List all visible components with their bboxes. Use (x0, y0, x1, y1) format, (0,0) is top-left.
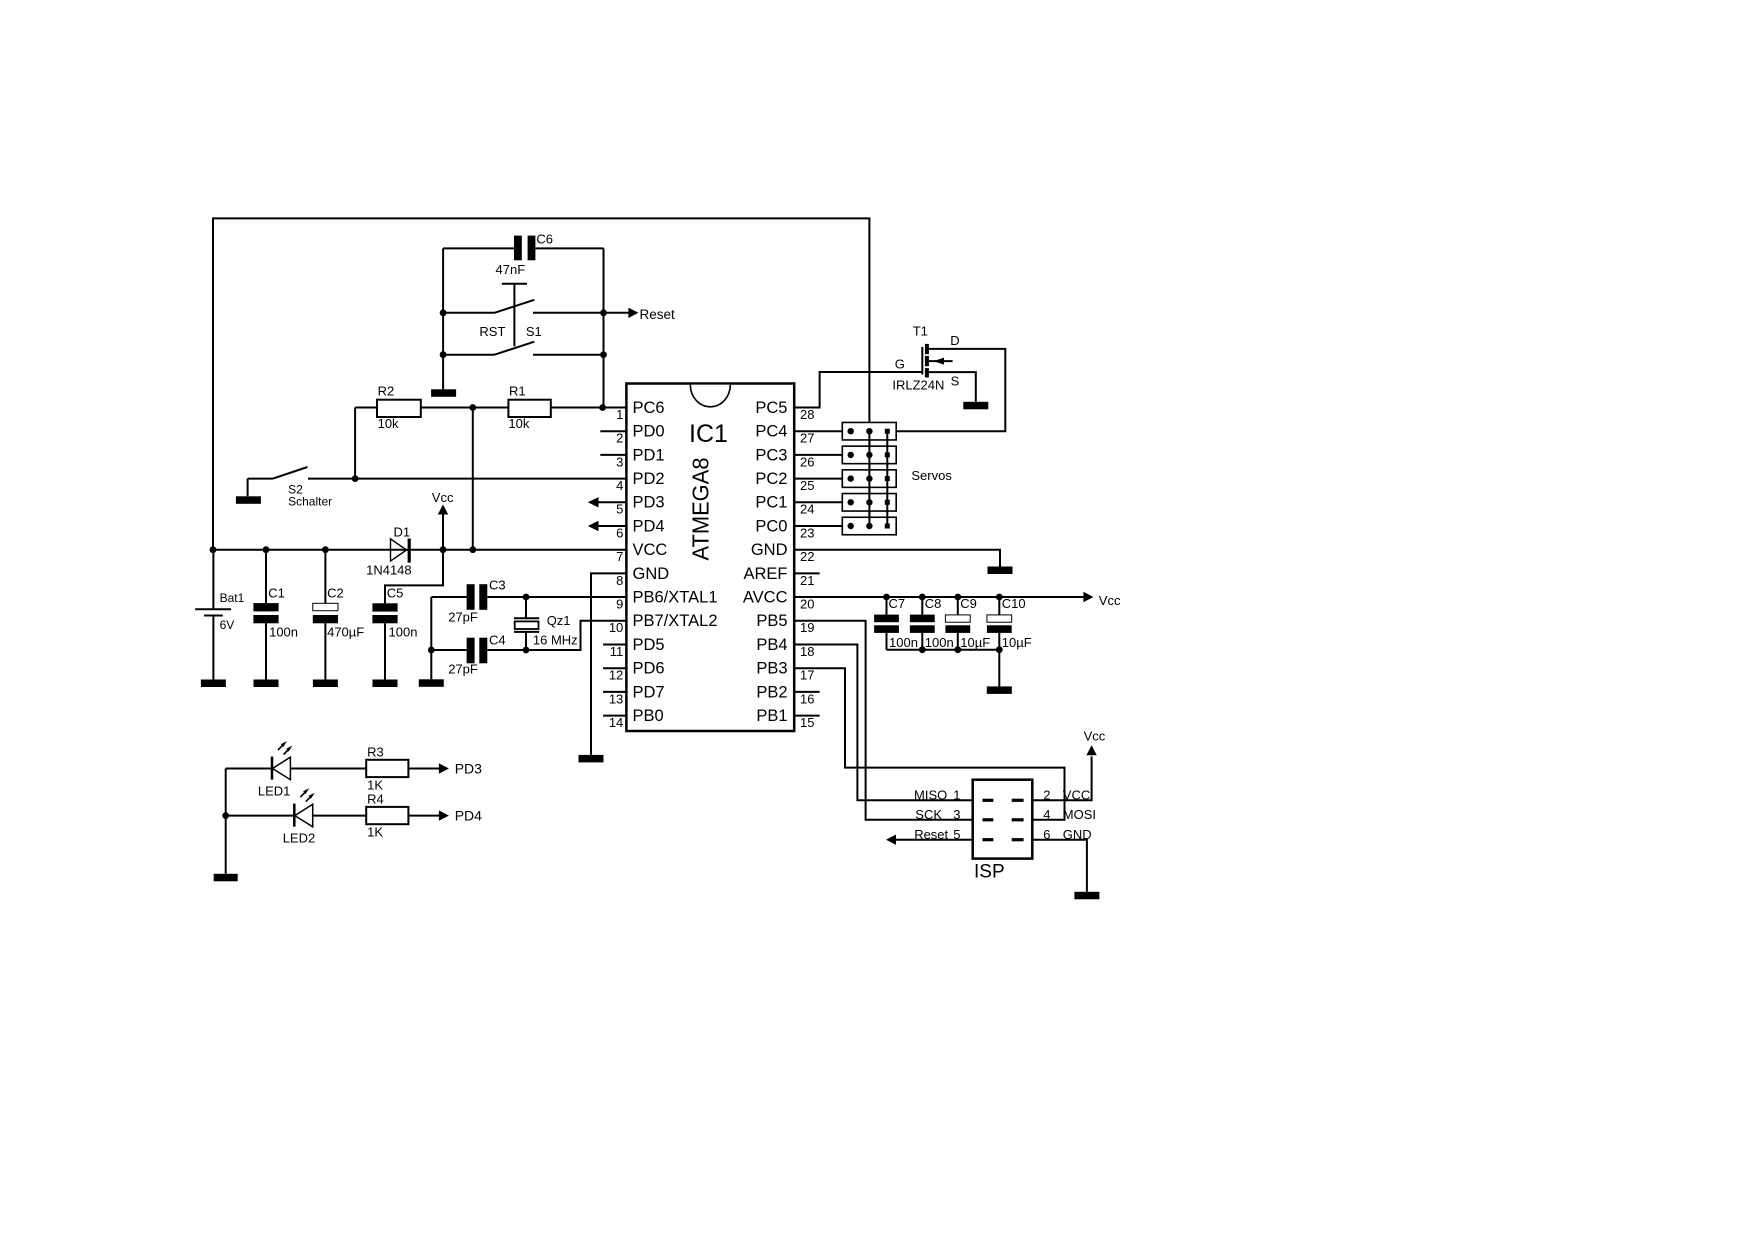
svg-text:16 MHz: 16 MHz (533, 633, 578, 648)
svg-text:14: 14 (609, 715, 623, 730)
IC1 pin 10 (PB7/XTAL2) (609, 612, 718, 635)
junction battery/rail (210, 546, 217, 553)
IC1 pin 20 (AVCC) (743, 589, 815, 612)
svg-text:PD3: PD3 (455, 760, 482, 776)
ISP pin 1 label MISO (914, 788, 961, 803)
svg-text:PC6: PC6 (633, 399, 665, 417)
wire LED1 anode to R3 (290, 768, 366, 770)
svg-text:PB5: PB5 (756, 612, 787, 630)
IC1 pin 3 (PD1) (600, 446, 664, 469)
wire servo middle column (battery +) (868, 431, 870, 526)
svg-text:PC5: PC5 (755, 399, 787, 417)
ic IC1 ATMEGA8 body (626, 384, 794, 732)
IC1 pin 14 (PB0) (603, 707, 664, 730)
svg-text:PD4: PD4 (455, 807, 482, 823)
svg-text:13: 13 (609, 691, 623, 706)
ground S1 (431, 389, 456, 397)
svg-text:24: 24 (800, 502, 814, 517)
crystal Qz1 16 MHz (514, 597, 578, 650)
svg-text:PB1: PB1 (756, 707, 787, 725)
svg-text:25: 25 (800, 478, 814, 493)
svg-text:17: 17 (800, 668, 814, 683)
junction S1 top-left (440, 309, 447, 316)
resistor R2 10k (355, 383, 473, 431)
svg-text:10: 10 (609, 620, 623, 635)
svg-text:100n: 100n (925, 635, 954, 650)
svg-text:PC1: PC1 (755, 494, 787, 512)
svg-text:5: 5 (616, 502, 623, 517)
IC1 pin 25 (PC2) (755, 470, 814, 493)
svg-text:15: 15 (800, 715, 814, 730)
junction R1-R2/rail (469, 546, 476, 553)
svg-text:PC4: PC4 (755, 423, 787, 441)
svg-text:C8: C8 (925, 596, 942, 611)
junction Qz1 top (523, 594, 530, 601)
junction Qz1 bottom (523, 647, 530, 654)
ISP pin 3 label SCK (915, 807, 960, 822)
capacitor C6 47nF (443, 232, 603, 277)
wire crystal left leg to ground (430, 597, 432, 679)
wire PB5 pin19 to ISP SCK (794, 621, 973, 820)
svg-text:RST: RST (479, 324, 505, 339)
junction C8/AVCC (919, 594, 926, 601)
junction C8/bus (919, 646, 926, 653)
IC1 pin 11 (PD5) (603, 636, 665, 659)
wire C7-C10 bottom bus (887, 649, 1000, 651)
wire IC pin 22 GND to ground (794, 550, 1000, 567)
svg-text:PB2: PB2 (756, 683, 787, 701)
svg-text:MOSI: MOSI (1063, 807, 1096, 822)
svg-text:IRLZ24N: IRLZ24N (892, 378, 944, 393)
connector Servos row 3 (pin 25) (794, 470, 896, 488)
junction C10/AVCC (996, 594, 1003, 601)
svg-text:PC2: PC2 (755, 470, 787, 488)
junction R2/PD2 (352, 475, 359, 482)
svg-text:12: 12 (609, 668, 623, 683)
wire C6 right vertical to reset node (603, 248, 605, 407)
capacitor C2 470uF electrolytic (313, 550, 364, 680)
IC1 pin 23 (PC0) (755, 517, 814, 540)
svg-text:27: 27 (800, 431, 814, 446)
svg-text:IC1: IC1 (689, 420, 728, 448)
capacitor C3 27pF (448, 577, 505, 624)
battery Bat1 6V (195, 550, 244, 680)
svg-text:7: 7 (616, 549, 623, 564)
ISP pin 2 label VCC (1043, 788, 1090, 803)
svg-text:3: 3 (953, 807, 960, 822)
IC1 pin 4 (PD2) (616, 470, 665, 493)
junction S1 top-right (600, 309, 607, 316)
IC1 pin 18 (PB4) (756, 636, 814, 659)
svg-text:21: 21 (800, 573, 814, 588)
ground C10 bus (987, 686, 1012, 694)
svg-text:Reset: Reset (640, 307, 676, 322)
svg-text:28: 28 (800, 407, 814, 422)
ground battery (201, 680, 226, 688)
svg-text:1: 1 (953, 788, 960, 803)
svg-text:R2: R2 (378, 383, 395, 398)
svg-text:Servos: Servos (911, 468, 952, 483)
svg-text:C2: C2 (327, 586, 344, 601)
ground crystal (419, 679, 444, 687)
junction S1 bottom-right (600, 351, 607, 358)
switch S2 Schalter (248, 467, 333, 509)
IC1 pin 7 (VCC) (616, 541, 667, 564)
svg-text:10k: 10k (378, 416, 399, 431)
wire R2-R1 node to Vcc rail (472, 408, 474, 550)
wire C6/S1 left vertical to ground (442, 248, 444, 389)
IC1 pin 13 (PD7) (603, 683, 665, 706)
ground T1 source (963, 402, 988, 410)
svg-text:6: 6 (616, 525, 623, 540)
svg-text:R4: R4 (367, 792, 384, 807)
svg-text:PC0: PC0 (755, 517, 787, 535)
svg-text:22: 22 (800, 549, 814, 564)
svg-text:GND: GND (633, 565, 670, 583)
svg-text:PD5: PD5 (633, 636, 665, 654)
junction S1 bottom-left (440, 351, 447, 358)
IC1 pin 19 (PB5) (756, 612, 814, 635)
net label arrow PD3 (408, 760, 482, 776)
net label arrow PD4 (408, 807, 482, 823)
led LED2 (226, 788, 316, 845)
junction LED2 row (222, 812, 229, 819)
ground C2 (313, 680, 338, 688)
junction crystal left/C4 (428, 647, 435, 654)
svg-text:47nF: 47nF (496, 262, 526, 277)
wire bus down to ground (998, 650, 1000, 687)
svg-text:AREF: AREF (743, 565, 787, 583)
label Servos (911, 468, 952, 483)
svg-text:PD4: PD4 (633, 517, 665, 535)
svg-text:PB0: PB0 (633, 707, 664, 725)
connector Servos row 1 (pin 27) (794, 422, 896, 440)
svg-text:C7: C7 (889, 596, 906, 611)
svg-text:Qz1: Qz1 (547, 613, 571, 628)
svg-text:Vcc: Vcc (1084, 729, 1106, 744)
connector Servos row 5 (pin 23) (794, 517, 896, 535)
connector ISP body (973, 780, 1033, 883)
resistor R1 10k (473, 383, 627, 431)
svg-text:10k: 10k (508, 416, 529, 431)
wire LED cathode rail (225, 769, 227, 874)
svg-text:GND: GND (751, 541, 788, 559)
svg-text:100n: 100n (269, 625, 298, 640)
svg-text:SCK: SCK (915, 807, 942, 822)
IC1 pin 5 (PD3) (588, 494, 665, 517)
capacitor C8 100n (910, 596, 954, 650)
junction C10/bus (996, 646, 1003, 653)
IC1 pin 24 (PC1) (755, 494, 814, 517)
svg-text:PD2: PD2 (633, 470, 665, 488)
ISP pin 5 label Reset (914, 827, 960, 842)
connector Servos row 2 (pin 26) (794, 446, 896, 464)
transistor T1 IRLZ24N (892, 323, 959, 392)
junction R1-R2 node (469, 404, 476, 411)
svg-text:T1: T1 (913, 323, 928, 338)
svg-text:19: 19 (800, 620, 814, 635)
svg-text:PD6: PD6 (633, 660, 665, 678)
capacitor C9 10uF (945, 596, 990, 650)
junction C7/AVCC (883, 594, 890, 601)
svg-text:S1: S1 (526, 324, 542, 339)
ground S2 (236, 496, 261, 504)
ground C5 (373, 680, 398, 688)
svg-text:1K: 1K (367, 825, 383, 840)
wire ISP VCC to Vcc symbol (1032, 729, 1105, 801)
ground ISP (1074, 892, 1099, 900)
resistor R3 1K (366, 745, 408, 793)
svg-text:ATMEGA8: ATMEGA8 (688, 458, 714, 561)
svg-text:9: 9 (616, 597, 623, 612)
wire AVCC net with Vcc arrow (794, 592, 1121, 608)
svg-text:4: 4 (616, 478, 623, 493)
wire PD2 net from switch S2 to IC pin 4 (308, 478, 626, 480)
ground pin8 (579, 755, 604, 763)
wire Vcc rail from battery to IC pin 7 (VCC) (213, 549, 626, 551)
IC1 pin 8 (GND) (616, 565, 669, 588)
svg-text:LED2: LED2 (283, 830, 316, 845)
wire PB4 pin18 to ISP MISO (794, 645, 973, 801)
svg-text:1K: 1K (367, 778, 383, 793)
wire battery plus up and top rail to servo column (213, 218, 869, 549)
svg-text:26: 26 (800, 454, 814, 469)
svg-text:C1: C1 (268, 586, 285, 601)
svg-text:Bat1: Bat1 (220, 591, 245, 605)
svg-text:PD1: PD1 (633, 446, 665, 464)
power symbol Vcc (at rail) (432, 490, 454, 550)
svg-text:8: 8 (616, 573, 623, 588)
IC1 pin 15 (PB1) (756, 707, 819, 730)
IC1 pin 1 (PC6) (616, 399, 665, 422)
svg-text:C10: C10 (1002, 596, 1026, 611)
svg-text:16: 16 (800, 691, 814, 706)
svg-text:470µF: 470µF (327, 625, 364, 640)
ISP pin 6 label GND (1043, 827, 1091, 842)
svg-text:Vcc: Vcc (1099, 593, 1121, 608)
capacitor C5 100n (372, 550, 443, 680)
wire IC pin 8 GND to ground (591, 573, 626, 755)
junction C9/AVCC (954, 594, 961, 601)
net label arrow Reset (604, 307, 676, 322)
svg-text:Vcc: Vcc (432, 490, 454, 505)
net label arrow Reset at ISP (886, 835, 973, 845)
IC1 pin 27 (PC4) (755, 423, 814, 446)
IC1 pin 22 (GND) (751, 541, 815, 564)
wire T1 drain to servo power column (887, 349, 1005, 431)
svg-text:D1: D1 (394, 525, 411, 540)
svg-text:PD0: PD0 (633, 423, 665, 441)
svg-text:C6: C6 (536, 232, 553, 247)
wire servo right column (switched gnd) (886, 431, 888, 526)
svg-text:C9: C9 (960, 596, 977, 611)
IC1 pin 28 (PC5) (755, 399, 814, 422)
svg-text:G: G (895, 357, 905, 372)
junction C9/bus (954, 646, 961, 653)
wire PC5 pin28 to T1 gate (794, 372, 922, 408)
connector Servos row 4 (pin 24) (794, 494, 896, 512)
svg-text:1: 1 (616, 407, 623, 422)
IC1 pin 26 (PC3) (755, 446, 814, 469)
svg-text:18: 18 (800, 644, 814, 659)
ground LEDs (214, 874, 238, 882)
svg-text:D: D (950, 333, 959, 348)
IC1 pin 2 (PD0) (600, 423, 664, 446)
wire PB3 pin17 to ISP MOSI (794, 668, 1064, 820)
wire LED2 anode to R4 (313, 815, 367, 817)
svg-text:27pF: 27pF (448, 609, 478, 624)
svg-text:2: 2 (616, 431, 623, 446)
svg-text:MISO: MISO (914, 788, 947, 803)
svg-text:6V: 6V (220, 618, 235, 632)
IC1 pin 17 (PB3) (756, 660, 814, 683)
svg-text:C3: C3 (489, 577, 506, 592)
svg-text:VCC: VCC (633, 541, 668, 559)
svg-text:100n: 100n (889, 635, 918, 650)
IC1 pin 9 (PB6/XTAL1) (616, 589, 717, 612)
junction C1/rail (263, 546, 270, 553)
pushbutton S1 RST (443, 284, 603, 355)
IC1 pin 6 (PD4) (588, 517, 665, 540)
resistor R4 1K (366, 792, 408, 840)
svg-text:LED1: LED1 (258, 783, 291, 798)
svg-text:R1: R1 (509, 383, 526, 398)
capacitor C7 100n (874, 596, 918, 650)
svg-text:S: S (951, 374, 960, 389)
led LED1 (226, 741, 293, 798)
wire R2 left drop to PD2 net (354, 408, 356, 479)
svg-text:R3: R3 (367, 745, 384, 760)
svg-text:20: 20 (800, 597, 814, 612)
svg-text:23: 23 (800, 525, 814, 540)
svg-text:PB3: PB3 (756, 660, 787, 678)
junction C2/rail (322, 546, 329, 553)
svg-text:Schalter: Schalter (288, 495, 332, 509)
svg-text:27pF: 27pF (448, 661, 478, 676)
capacitor C1 100n (253, 550, 298, 680)
svg-text:C5: C5 (387, 586, 404, 601)
svg-text:PC3: PC3 (755, 446, 787, 464)
junction reset-node/pin1 (599, 404, 606, 411)
svg-text:PD7: PD7 (633, 683, 665, 701)
svg-text:10µF: 10µF (1002, 635, 1032, 650)
junction Vcc-arrow/C5/rail (440, 546, 447, 553)
IC1 pin 21 (AREF) (743, 565, 819, 588)
capacitor C10 10uF (987, 596, 1032, 650)
ground pin22 (988, 567, 1013, 575)
wire T1 source to ground (929, 372, 976, 402)
svg-text:AVCC: AVCC (743, 589, 788, 607)
IC1 pin 12 (PD6) (603, 660, 665, 683)
wire XTAL1 net (C3/Qz1 to pin 9) (431, 596, 626, 598)
ground C1 (254, 680, 279, 688)
svg-text:C4: C4 (489, 633, 506, 648)
svg-text:10µF: 10µF (960, 635, 990, 650)
wire ISP GND to ground (1032, 840, 1087, 892)
svg-text:1N4148: 1N4148 (366, 563, 412, 578)
ISP pin 4 label MOSI (1043, 807, 1096, 822)
svg-text:100n: 100n (389, 625, 418, 640)
svg-text:4: 4 (1043, 807, 1050, 822)
svg-text:ISP: ISP (974, 862, 1005, 883)
wire XTAL2 net (C4/Qz1 to pin 10) (431, 621, 626, 650)
svg-text:11: 11 (610, 644, 624, 659)
svg-text:PB4: PB4 (756, 636, 787, 654)
diode D1 1N4148 (366, 525, 412, 578)
capacitor C4 27pF (448, 633, 505, 677)
svg-text:PB7/XTAL2: PB7/XTAL2 (633, 612, 718, 630)
IC1 pin 16 (PB2) (756, 683, 819, 706)
svg-text:3: 3 (616, 454, 623, 469)
svg-text:PD3: PD3 (633, 494, 665, 512)
svg-text:PB6/XTAL1: PB6/XTAL1 (633, 589, 718, 607)
